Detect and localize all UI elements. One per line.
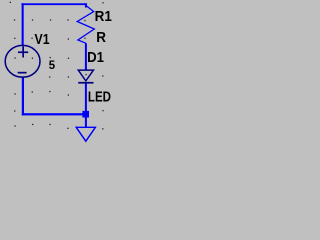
ground <box>76 127 95 141</box>
svg-text:R: R <box>96 30 106 47</box>
wire top horizontal <box>21 3 87 5</box>
wire left vertical (V1 minus to bottom corner) <box>22 77 24 115</box>
grid dots <box>10 2 104 130</box>
svg-text:5: 5 <box>49 59 56 72</box>
wire diode to node and ground <box>85 83 87 127</box>
wire bottom horizontal <box>22 113 84 115</box>
voltage source V1 circle <box>5 45 40 77</box>
wire resistor to diode <box>85 43 87 70</box>
V1 minus sign <box>18 72 27 74</box>
wire left vertical (top, V1 plus pin) <box>22 3 24 46</box>
node junction square <box>82 111 89 118</box>
diode D1 triangle <box>78 70 93 81</box>
resistor R1 zigzag <box>77 6 94 44</box>
background <box>0 0 118 143</box>
V1 plus sign <box>18 51 28 53</box>
wire right vertical (top corner to resistor) <box>85 3 87 7</box>
svg-text:LED: LED <box>88 88 111 105</box>
svg-text:D1: D1 <box>87 48 104 65</box>
svg-text:R1: R1 <box>95 8 112 25</box>
diode D1 cathode bar <box>78 82 93 84</box>
svg-text:V1: V1 <box>35 31 50 47</box>
